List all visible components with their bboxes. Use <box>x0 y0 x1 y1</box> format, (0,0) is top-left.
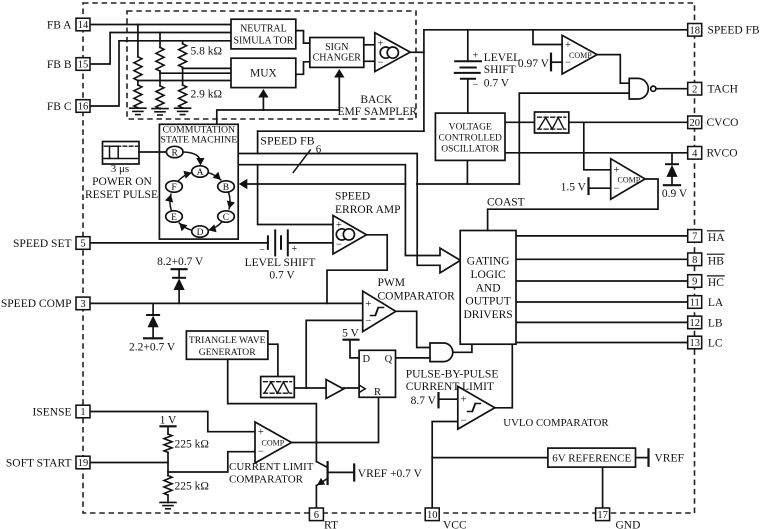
resistor column1 upper (5.8k) <box>134 57 142 81</box>
pin 6 RT <box>309 508 323 521</box>
svg-text:−: − <box>365 316 371 327</box>
svg-text:1 V: 1 V <box>160 414 177 426</box>
wire 1V to divider <box>167 426 169 434</box>
wire speed fb drop upper (broken at bus) <box>257 131 259 153</box>
triangle wave symbol box (CVCO) <box>535 112 569 133</box>
pin 16 FB C <box>76 100 90 113</box>
resistor column2 upper (5.8k) <box>156 47 164 71</box>
svg-text:COMPARATOR: COMPARATOR <box>378 290 456 302</box>
svg-text:CVCO: CVCO <box>707 117 739 129</box>
wire gating output to pin 12 LB <box>516 321 688 323</box>
terminal 1V <box>161 425 176 427</box>
svg-text:2.2+0.7 V: 2.2+0.7 V <box>129 341 176 353</box>
wire column2 mid <box>159 71 161 86</box>
wire column3 mid <box>182 67 184 85</box>
diode clamp 2.2V <box>147 315 159 327</box>
pin 12 LB <box>688 316 702 329</box>
svg-text:R: R <box>172 149 179 159</box>
svg-text:0.7 V: 0.7 V <box>269 269 295 281</box>
svg-text:5 V: 5 V <box>342 328 359 340</box>
svg-text:−: − <box>259 245 265 256</box>
wire buffer to flipflop clock <box>344 387 360 389</box>
wire gating output to pin 7 HA <box>516 235 688 237</box>
svg-text:CHANGER: CHANGER <box>313 52 362 63</box>
svg-text:VREF: VREF <box>655 453 684 465</box>
wire neutral simulator to sign changer <box>296 31 310 43</box>
svg-text:+: + <box>461 395 467 406</box>
bus speed fb lower line <box>238 165 460 260</box>
triangle wave symbol box (PWM ramp) <box>261 377 295 398</box>
bus width slash <box>293 150 310 172</box>
diode clamp 8.2V <box>173 278 185 290</box>
wire column3 to ground <box>182 107 184 109</box>
svg-text:19: 19 <box>78 458 89 469</box>
svg-text:DRIVERS: DRIVERS <box>463 309 512 321</box>
state C <box>218 211 235 223</box>
wire error amp output to pwm + <box>327 235 387 304</box>
wire FB C to neutral simulator <box>90 41 231 106</box>
IC boundary (dashed) <box>83 3 695 513</box>
svg-text:NEUTRAL: NEUTRAL <box>240 23 287 34</box>
wire coast comparator output <box>488 179 658 231</box>
terminal 1.5V <box>587 178 589 194</box>
wire gating output to pin 9 HC <box>516 280 688 282</box>
svg-text:COAST: COAST <box>487 196 525 208</box>
pin 14 FB A <box>76 18 90 31</box>
svg-text:OSCILLATOR: OSCILLATOR <box>441 144 500 154</box>
svg-text:ERROR AMP: ERROR AMP <box>335 204 401 216</box>
diode RVCO clamp <box>666 164 678 177</box>
svg-text:SPEED COMP: SPEED COMP <box>1 298 72 310</box>
state E <box>166 211 183 223</box>
terminal 8.7V <box>437 393 439 407</box>
wire CVCO branch to comparator + <box>584 122 611 170</box>
svg-text:C: C <box>223 213 229 223</box>
pin 8 HB <box>688 253 702 266</box>
wire gating output to pin 13 LC <box>516 342 688 344</box>
wire VREF+0.7 to transistor base <box>328 471 355 473</box>
comparator speed FB (COMP) <box>562 35 597 74</box>
svg-text:LEVEL: LEVEL <box>484 52 520 64</box>
svg-text:13: 13 <box>689 338 700 349</box>
svg-text:14: 14 <box>78 20 89 31</box>
svg-text:20: 20 <box>689 118 700 129</box>
wire column2 to ground <box>159 107 161 110</box>
resistor column2 lower (2.9k) <box>156 86 164 109</box>
back EMF sampler dashed box <box>127 11 416 119</box>
comparator 1.5V (COMP) <box>611 159 645 200</box>
wire tap column1 to MUX <box>138 80 231 82</box>
wire diode anode <box>671 177 673 185</box>
power-on reset pulse box <box>103 142 140 165</box>
wire column2 drop <box>159 33 161 48</box>
voltage controlled oscillator block <box>435 113 505 160</box>
wire clamp diode 2.2 bottom <box>152 327 154 339</box>
op-amp speed error amp <box>333 216 367 255</box>
svg-text:8.7 V: 8.7 V <box>411 395 437 407</box>
wire column1 drop <box>137 25 139 57</box>
bus speed fb upper line <box>238 154 460 273</box>
state R <box>166 146 183 158</box>
wire speed fb net vertical <box>423 30 425 131</box>
label HB (overline) <box>708 254 725 267</box>
svg-text:2: 2 <box>692 84 697 95</box>
svg-text:SPEED FB: SPEED FB <box>708 25 760 37</box>
comparator current limit (COMP) <box>255 422 292 463</box>
ground divider <box>160 502 176 508</box>
svg-text:POWER ON: POWER ON <box>92 176 152 188</box>
wire back EMF amp output <box>410 51 424 53</box>
svg-text:SPEED FB: SPEED FB <box>260 133 314 147</box>
svg-text:R: R <box>374 387 381 398</box>
wire column1 to ground <box>137 107 139 109</box>
svg-text:D: D <box>197 228 204 238</box>
svg-text:ISENSE: ISENSE <box>33 406 72 418</box>
terminal VREF+0.7V <box>353 465 355 481</box>
svg-text:16: 16 <box>78 102 89 113</box>
svg-text:8.2+0.7 V: 8.2+0.7 V <box>157 256 204 268</box>
battery level shift 0.7V (speed set) <box>268 230 288 255</box>
svg-text:HC: HC <box>708 277 724 289</box>
svg-text:12: 12 <box>689 318 700 329</box>
wire gating output to pin 8 HB <box>516 258 688 260</box>
svg-text:SPEED: SPEED <box>335 190 370 202</box>
svg-text:0.7 V: 0.7 V <box>484 77 510 89</box>
svg-text:BACK: BACK <box>360 94 393 106</box>
terminal 0.97V <box>550 54 552 71</box>
svg-text:GND: GND <box>616 519 641 529</box>
wire transistor emitter to pin 6 RT <box>315 486 317 508</box>
wire UVLO output to gating logic <box>495 344 513 408</box>
svg-text:4: 4 <box>692 148 698 159</box>
svg-text:GATING: GATING <box>467 256 510 268</box>
wire TWG to transistor collector <box>228 359 317 461</box>
wire VCC to UVLO - <box>432 422 458 508</box>
wire 0.97V to comparator - <box>551 61 562 63</box>
label HA (overline) <box>708 231 726 244</box>
svg-text:−: − <box>614 183 620 194</box>
wire ISENSE to current limit + <box>90 412 255 432</box>
svg-text:A: A <box>197 168 204 178</box>
resistor column1 lower (2.9k) <box>134 85 142 108</box>
svg-text:6: 6 <box>316 143 322 155</box>
svg-text:E: E <box>171 213 177 223</box>
state A <box>192 166 209 178</box>
wire NAND output to pin 2 TACH <box>656 88 688 90</box>
svg-text:FB C: FB C <box>47 101 72 113</box>
svg-text:9: 9 <box>692 277 697 288</box>
wire FB A to neutral simulator <box>90 24 231 26</box>
pin 11 LA <box>688 296 702 309</box>
svg-text:COMP: COMP <box>618 176 641 185</box>
svg-text:MUX: MUX <box>250 68 278 80</box>
pin 10 VCC <box>425 508 439 521</box>
svg-text:LB: LB <box>708 317 723 329</box>
svg-text:LA: LA <box>708 297 724 309</box>
svg-text:CURRENT LIMIT: CURRENT LIMIT <box>229 461 314 473</box>
svg-text:SOFT START: SOFT START <box>6 457 72 469</box>
MUX select arrow from state machine <box>217 69 345 124</box>
svg-text:PULSE-BY-PULSE: PULSE-BY-PULSE <box>406 368 499 380</box>
svg-text:OUTPUT: OUTPUT <box>465 296 510 308</box>
sign changer block <box>310 38 364 68</box>
pin 15 FB B <box>76 58 90 71</box>
wire FB B to neutral simulator <box>90 33 231 65</box>
svg-text:LEVEL SHIFT: LEVEL SHIFT <box>245 257 316 269</box>
wire 1.5V to comparator - <box>589 187 611 189</box>
svg-text:0.97 V: 0.97 V <box>518 58 550 70</box>
wire gating output to pin 11 LA <box>516 301 688 303</box>
terminal 2.2+0.7V <box>144 337 162 339</box>
svg-text:EMF SAMPLER: EMF SAMPLER <box>338 106 418 118</box>
wire level shift battery to VCO <box>467 79 469 113</box>
flip-flop D/Q block <box>359 350 395 397</box>
wire clock to state machine (left segment) <box>244 183 406 185</box>
wire reset pulse to R state <box>139 151 166 153</box>
svg-text:RVCO: RVCO <box>707 148 738 160</box>
pin 1 ISENSE <box>76 405 90 418</box>
svg-text:17: 17 <box>597 510 608 521</box>
arrowhead into state machine <box>239 179 248 189</box>
6V reference block <box>548 448 636 467</box>
ground column1 <box>130 108 146 114</box>
svg-text:Q: Q <box>385 354 393 365</box>
svg-text:2.9 kΩ: 2.9 kΩ <box>191 89 223 101</box>
wire VCO to pin 4 RVCO <box>505 152 688 154</box>
pin 19 SOFT START <box>76 456 90 469</box>
svg-text:RESET PULSE: RESET PULSE <box>85 189 158 201</box>
svg-text:COMP: COMP <box>262 439 285 448</box>
pin 4 RVCO <box>688 147 702 160</box>
wire clamp diode 8.2 top <box>178 269 180 278</box>
resistor 2.9 kohm <box>179 85 187 108</box>
wire clamp diode 2.2 stem <box>152 303 154 315</box>
svg-text:6: 6 <box>314 510 319 521</box>
wire PWM comparator output to AND <box>396 311 430 347</box>
state D <box>192 226 209 238</box>
wire SPEED COMP pin 3 to PWM comparator + <box>90 302 363 304</box>
svg-text:SPEED SET: SPEED SET <box>13 238 71 250</box>
svg-text:VCC: VCC <box>443 519 467 529</box>
op-amp back EMF sampler <box>375 33 410 72</box>
svg-text:GENERATOR: GENERATOR <box>199 347 256 358</box>
wire column1 mid <box>137 81 139 86</box>
svg-text:225 kΩ: 225 kΩ <box>175 438 209 450</box>
state F <box>166 181 183 193</box>
wire speed fb to error amp horizontal <box>258 130 424 132</box>
resistor 225 kohm lower <box>164 476 172 495</box>
svg-text:3 μs: 3 μs <box>111 163 129 175</box>
svg-text:−: − <box>258 446 264 457</box>
wire VCO to CVCO filter <box>505 121 535 123</box>
svg-text:15: 15 <box>78 60 89 71</box>
ground column3 <box>175 108 191 114</box>
svg-text:HB: HB <box>708 255 724 267</box>
neutral simulator U-A <box>231 19 296 49</box>
pin 9 HC <box>688 275 702 288</box>
wire clamp diode 8.2 stem <box>178 289 180 303</box>
svg-text:STATE MACHINE: STATE MACHINE <box>160 134 237 145</box>
svg-text:TRIANGLE WAVE: TRIANGLE WAVE <box>189 335 266 346</box>
label HC (overline) <box>708 276 725 289</box>
svg-text:+: + <box>473 50 479 61</box>
svg-text:HA: HA <box>708 232 725 244</box>
wire current limit output to R input <box>292 397 379 442</box>
resistor 225 kohm upper <box>164 434 172 452</box>
svg-text:18: 18 <box>689 25 700 36</box>
wire speed comparator output to NAND <box>597 55 629 84</box>
svg-text:SIMULA TOR: SIMULA TOR <box>233 36 293 47</box>
wire level shift to error amp - <box>288 242 333 244</box>
svg-text:5.8 kΩ: 5.8 kΩ <box>191 46 223 58</box>
wire branch to speed comparator + <box>533 30 562 45</box>
svg-text:LC: LC <box>708 338 723 350</box>
pin 2 TACH <box>688 82 702 95</box>
pin 7 HA <box>688 230 702 243</box>
wire AND output to gating logic <box>453 344 472 352</box>
svg-text:1.5 V: 1.5 V <box>561 181 587 193</box>
svg-text:225 kΩ: 225 kΩ <box>175 480 209 492</box>
pin 13 LC <box>688 336 702 349</box>
svg-text:VREF +0.7 V: VREF +0.7 V <box>358 468 423 480</box>
wire 5V to D input <box>350 340 359 358</box>
wire branch to level shift battery <box>467 30 469 61</box>
svg-text:−: − <box>461 416 467 427</box>
wire speed fb drop lower to error amp + <box>258 165 333 225</box>
wire MUX to sign changer <box>296 62 310 75</box>
svg-text:VOLTAGE: VOLTAGE <box>449 122 492 132</box>
svg-text:COMPARATOR: COMPARATOR <box>229 473 304 485</box>
svg-text:COMP: COMP <box>569 51 592 60</box>
svg-text:PWM: PWM <box>378 277 405 289</box>
svg-text:−: − <box>473 79 479 90</box>
wire 6V reference to pin 17 GND <box>602 467 604 507</box>
terminal 0.9V <box>664 184 680 186</box>
pin 20 CVCO <box>688 116 702 129</box>
pin 18 SPEED FB <box>688 24 702 37</box>
wire SOFT START to divider <box>90 462 168 464</box>
svg-text:FB B: FB B <box>47 59 72 71</box>
wire TWG to ramp box <box>268 344 278 376</box>
svg-text:+: + <box>565 40 571 51</box>
svg-text:B: B <box>223 183 229 193</box>
wire VCO clock down <box>466 160 468 184</box>
svg-text:5: 5 <box>80 239 85 250</box>
wire Q to AND <box>396 357 431 359</box>
svg-text:D: D <box>363 354 371 365</box>
wire ramp output <box>294 387 326 389</box>
wire tap column3 to MUX <box>183 67 231 69</box>
wire 6V reference output <box>636 457 648 459</box>
ground column2 <box>152 109 168 115</box>
wire 8.7V to UVLO + <box>439 398 458 400</box>
svg-text:LOGIC: LOGIC <box>471 269 506 281</box>
wire speed fb to pin 18 <box>424 29 688 31</box>
svg-text:FB A: FB A <box>47 19 72 31</box>
arrow R to A <box>183 152 200 163</box>
svg-text:3: 3 <box>80 299 85 310</box>
wire divider to current limit - <box>168 452 255 472</box>
svg-text:−: − <box>378 58 384 69</box>
commutation state machine block <box>159 124 238 239</box>
wire diode to RVCO line <box>671 153 673 164</box>
svg-text:−: − <box>336 240 342 251</box>
svg-text:TACH: TACH <box>708 84 738 96</box>
svg-text:AND: AND <box>476 282 501 294</box>
pin 3 SPEED COMP <box>76 297 90 310</box>
svg-text:+: + <box>258 427 264 438</box>
svg-text:1: 1 <box>80 407 85 418</box>
svg-text:+: + <box>291 244 297 255</box>
wire VCC to 6V reference <box>432 457 548 459</box>
svg-text:UVLO COMPARATOR: UVLO COMPARATOR <box>503 417 609 429</box>
triangle wave generator block <box>186 331 268 359</box>
comparator PWM (hysteresis) <box>363 291 396 332</box>
wire sign changer to amp - input <box>364 60 375 62</box>
terminal 8.2+0.7V <box>172 268 187 270</box>
buffer clock driver <box>326 380 343 399</box>
transistor RT switch <box>316 462 327 486</box>
MUX block <box>231 58 296 87</box>
svg-text:7: 7 <box>692 232 697 243</box>
wire sign changer to amp + input <box>364 44 375 46</box>
wire divider to ground <box>167 495 169 502</box>
comparator UVLO (hysteresis) <box>458 386 495 429</box>
gating logic and output drivers block <box>460 231 516 345</box>
svg-text:SIGN: SIGN <box>325 42 348 53</box>
pin 17 GND <box>596 508 610 521</box>
svg-text:CURRENT LIMIT: CURRENT LIMIT <box>406 381 494 393</box>
svg-text:6V REFERENCE: 6V REFERENCE <box>552 452 631 464</box>
wire SPEED SET pin 5 to level shift <box>90 242 268 244</box>
svg-text:RT: RT <box>324 519 338 529</box>
resistor 5.8 kohm <box>179 44 187 68</box>
wire divider mid <box>167 452 169 475</box>
svg-text:F: F <box>171 183 176 193</box>
state ring arrows <box>165 171 235 233</box>
flip-flop clock chevron <box>359 385 365 393</box>
terminal VREF <box>647 449 649 466</box>
wire VCO clock to NAND input <box>519 93 629 184</box>
wire tap column2 to MUX <box>160 72 231 74</box>
svg-text:10: 10 <box>427 510 438 521</box>
wire CVCO filter to pin 20 <box>569 121 688 123</box>
wire column3 drop <box>182 41 184 44</box>
svg-text:SHIFT: SHIFT <box>484 64 516 76</box>
terminal 5V <box>344 339 359 341</box>
state B <box>218 181 235 193</box>
svg-text:0.9 V: 0.9 V <box>662 188 688 200</box>
svg-text:11: 11 <box>690 298 700 309</box>
pin 5 SPEED SET <box>76 237 90 250</box>
svg-text:CONTROLLED: CONTROLLED <box>439 133 502 143</box>
AND gate pulse-by-pulse <box>430 343 453 362</box>
battery level shift 0.7V (top) <box>455 61 481 79</box>
NAND gate tach <box>629 78 656 99</box>
wire clock (right segment) <box>417 183 519 185</box>
svg-text:8: 8 <box>692 255 697 266</box>
wire ramp to PWM comparator - <box>306 320 363 388</box>
svg-text:+: + <box>365 299 371 310</box>
